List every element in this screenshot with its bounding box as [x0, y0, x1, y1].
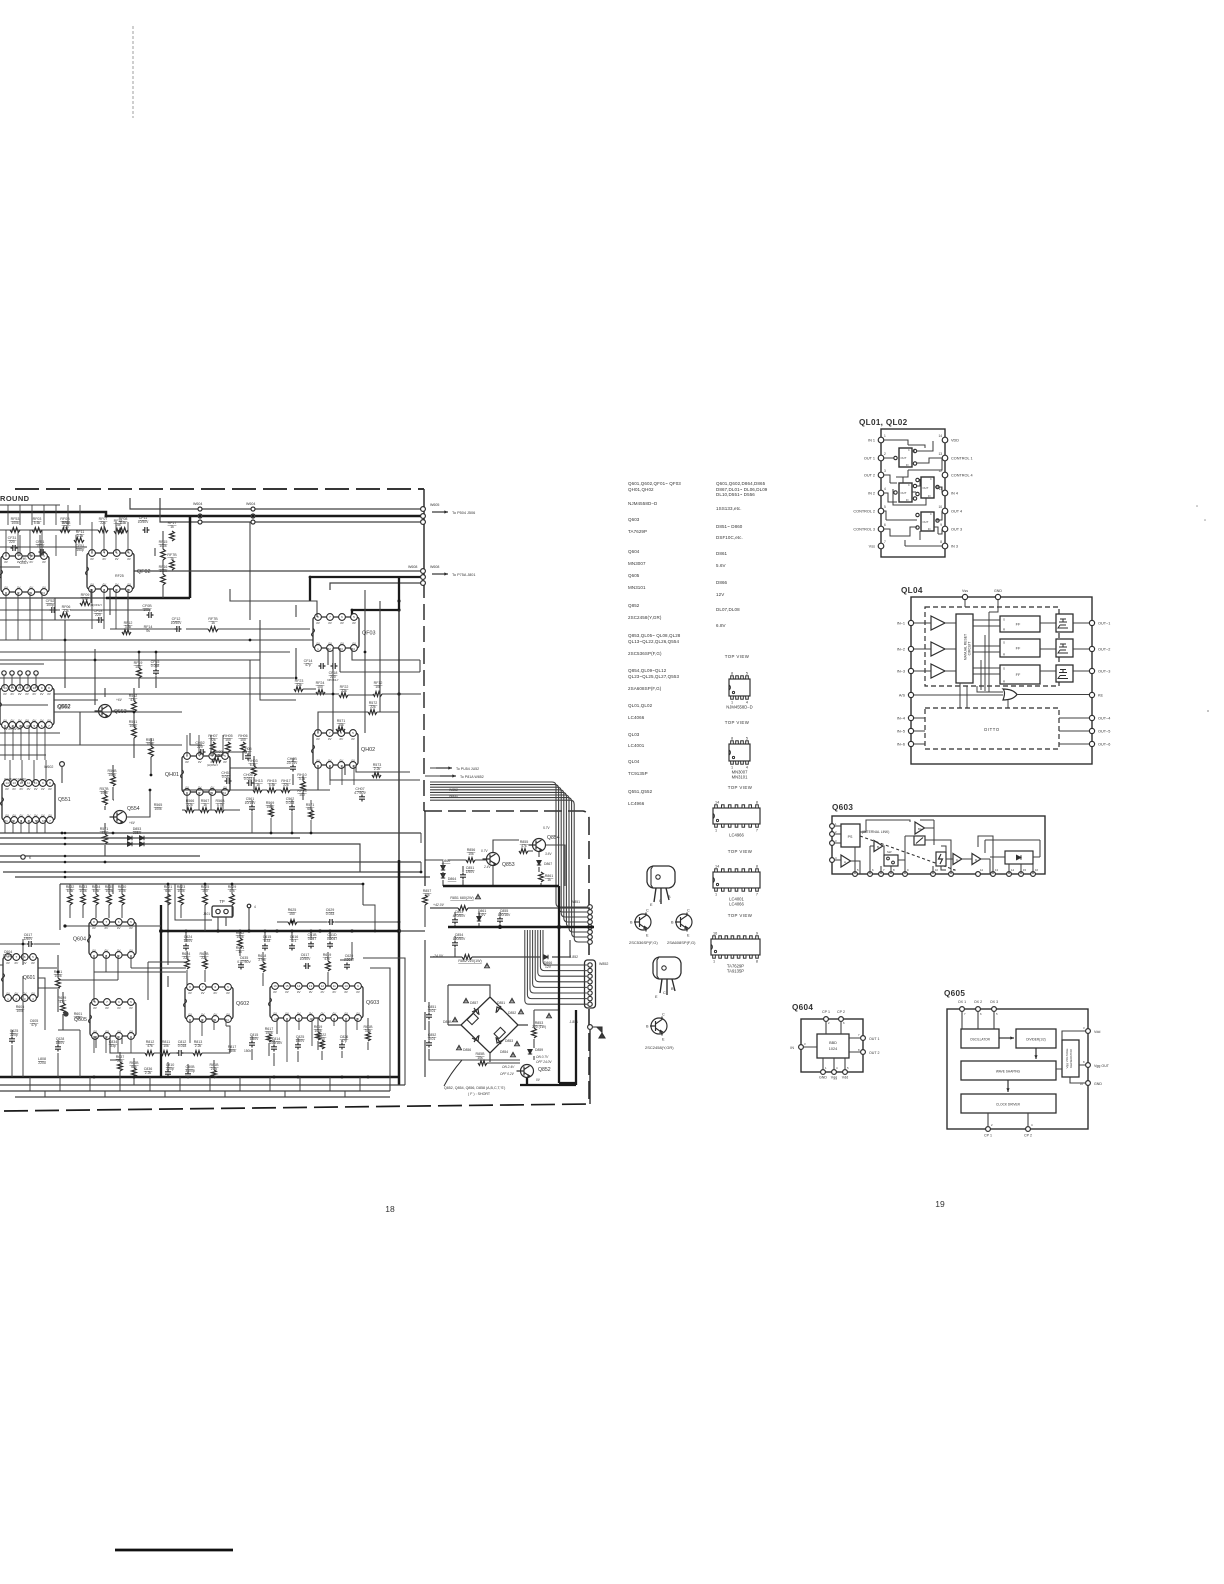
svg-text:OFF 24.0V: OFF 24.0V — [536, 1060, 552, 1064]
svg-text:220: 220 — [197, 745, 203, 749]
svg-text:S: S — [1003, 667, 1005, 671]
svg-text:OUT−5: OUT−5 — [1098, 730, 1110, 734]
wire — [58, 1030, 80, 1077]
Q603 wire — [985, 840, 1040, 874]
resistor — [230, 894, 235, 905]
junction — [332, 693, 335, 696]
switch cell 1 — [899, 448, 912, 467]
svg-text:270k: 270k — [258, 958, 266, 962]
warning triangle — [457, 1045, 462, 1049]
resistor — [132, 701, 137, 712]
svg-text:13: 13 — [11, 686, 15, 690]
svg-text:OUT 3: OUT 3 — [951, 528, 962, 532]
warning triangle — [453, 1017, 458, 1021]
QL01 pin IN 3 — [942, 543, 948, 549]
IC Q603 — [269, 986, 364, 1018]
resistor — [103, 834, 108, 844]
connector J-851 pin — [588, 930, 593, 935]
junction — [199, 515, 202, 518]
wire — [186, 931, 330, 956]
wire — [487, 1010, 559, 1063]
resistor — [118, 1062, 123, 1071]
QL01 wire — [934, 511, 942, 534]
warning triangle — [510, 998, 515, 1002]
QL01 pin Vss — [878, 543, 884, 549]
Q603 amp C — [953, 854, 962, 865]
bridge diode D853 — [496, 1037, 503, 1044]
junction — [498, 925, 502, 929]
wire — [95, 560, 421, 571]
svg-text:2.2k: 2.2k — [145, 1071, 152, 1075]
svg-text:12: 12 — [321, 984, 325, 988]
junction — [155, 651, 158, 654]
wire — [425, 768, 440, 776]
capacitor — [460, 873, 466, 880]
svg-text:D859: D859 — [535, 1048, 543, 1052]
svg-text:150p: 150p — [76, 548, 84, 552]
svg-text:ON 2.4V: ON 2.4V — [502, 1065, 515, 1069]
wire — [160, 498, 421, 522]
junction — [291, 921, 294, 924]
Q603 left pin 3 — [830, 841, 835, 846]
bundle fan wire — [430, 782, 587, 907]
Q604 BBD box — [817, 1034, 849, 1058]
svg-text:TP: TP — [219, 899, 225, 904]
svg-text:22k: 22k — [63, 525, 69, 529]
bottom thin bus — [0, 1085, 405, 1097]
svg-text:NJM4558D−D: NJM4558D−D — [726, 705, 752, 710]
package LC4001 top view — [713, 869, 760, 891]
junction — [94, 659, 97, 662]
connector pin — [251, 520, 255, 524]
connector J-852 pin — [588, 996, 592, 1000]
QH01 pin stub — [210, 792, 212, 810]
svg-text:10: 10 — [344, 984, 348, 988]
wire — [54, 700, 182, 745]
svg-text:Q551: Q551 — [58, 797, 71, 803]
Q603 wire — [898, 820, 951, 874]
wire — [425, 905, 500, 927]
junction — [374, 930, 377, 933]
QL01 pin IN 2 — [878, 490, 884, 496]
wire — [30, 548, 155, 632]
svg-text:13: 13 — [938, 452, 942, 456]
Q604 pin CP1 — [824, 1017, 829, 1022]
wire — [120, 1052, 214, 1085]
QH02 pin stub — [353, 765, 355, 785]
speck — [1204, 519, 1206, 521]
junction — [61, 832, 64, 835]
Q603 internal link dashed line — [860, 836, 955, 870]
junction — [557, 925, 561, 929]
QH01 pin stub — [186, 792, 188, 810]
QL04 wire — [914, 622, 956, 624]
resistor — [309, 810, 314, 819]
svg-text:16: 16 — [713, 931, 717, 935]
QH02 pin stub — [341, 765, 343, 785]
svg-text:+6V: +6V — [129, 821, 136, 825]
svg-text:Q852: Q852 — [628, 603, 640, 608]
svg-text:QH01: QH01 — [165, 772, 179, 778]
wire — [429, 1002, 520, 1060]
wire stub — [31, 505, 33, 525]
svg-text:DITTO: DITTO — [984, 727, 1000, 732]
diode — [128, 836, 133, 840]
junction — [309, 576, 312, 579]
QL04 wire — [1040, 670, 1089, 672]
capacitor — [308, 942, 314, 949]
wire — [592, 1026, 596, 1028]
junction — [64, 871, 67, 874]
junction — [291, 930, 294, 933]
QL01 pin OUT 2 — [878, 472, 884, 478]
svg-text:GND: GND — [1094, 1082, 1102, 1086]
svg-text:D866: D866 — [716, 580, 728, 585]
junction — [275, 929, 278, 932]
test point TP — [212, 906, 233, 917]
wire — [269, 1018, 368, 1056]
svg-text:QL04: QL04 — [628, 759, 640, 764]
svg-text:C: C — [659, 899, 662, 903]
svg-text:1: 1 — [884, 434, 886, 438]
ps left border wire — [424, 811, 426, 886]
long bus wire — [0, 844, 360, 872]
wire — [430, 940, 570, 957]
junction — [362, 883, 365, 886]
Q605 oscillator box — [961, 1029, 999, 1048]
thick vertical bus — [398, 860, 401, 1085]
wire stub — [79, 505, 81, 525]
QL04 pin IN−1 — [908, 620, 913, 625]
QF02 pin stub — [103, 589, 105, 629]
junction — [291, 832, 294, 835]
QL04 pin OUT−4 — [1089, 715, 1094, 720]
svg-text:D851~ D860: D851~ D860 — [716, 524, 743, 529]
switch cell 2 — [899, 483, 912, 502]
svg-text:LC4066: LC4066 — [628, 715, 645, 720]
svg-text:14: 14 — [5, 781, 9, 785]
bundle fan wire — [540, 930, 587, 971]
capacitor — [327, 942, 333, 949]
bundle fan wire — [430, 787, 587, 917]
svg-text:47k: 47k — [75, 1016, 81, 1020]
resistor — [61, 1003, 66, 1013]
svg-text:OFF 0.2V: OFF 0.2V — [500, 1072, 515, 1076]
capacitor — [339, 1043, 345, 1050]
svg-text:1/50V: 1/50V — [56, 1041, 66, 1045]
QL01 wire — [893, 458, 942, 505]
svg-text:OUT 1: OUT 1 — [869, 1037, 880, 1041]
svg-text:ONLY: ONLY — [20, 561, 30, 565]
junction — [397, 692, 400, 695]
wire — [60, 883, 363, 885]
svg-text:2SA608SP(F,G): 2SA608SP(F,G) — [667, 940, 696, 945]
junction — [341, 1076, 344, 1079]
svg-text:+6V: +6V — [116, 698, 123, 702]
connector pin — [2, 671, 6, 675]
wire — [363, 905, 375, 931]
junction — [231, 883, 234, 886]
capacitor — [271, 1045, 277, 1052]
Q603 left pin 4 — [830, 858, 835, 863]
svg-text:285A: 285A — [133, 831, 142, 835]
QL04 pin IN−6 — [908, 741, 913, 746]
QL04 pin GND — [995, 594, 1000, 599]
resistor — [267, 788, 276, 793]
svg-text:OX 1: OX 1 — [958, 1000, 966, 1004]
svg-text:220: 220 — [9, 540, 15, 544]
svg-text:CP 2: CP 2 — [1024, 1134, 1032, 1138]
junction — [63, 924, 66, 927]
svg-text:R851 680(2W): R851 680(2W) — [450, 896, 473, 900]
svg-text:Q605: Q605 — [944, 989, 965, 998]
svg-text:Q602: Q602 — [236, 1001, 249, 1007]
junction — [133, 711, 136, 714]
QF02 pin stub — [103, 522, 105, 553]
QL04 inner dashed box — [925, 607, 1059, 686]
Q603 pin stubs — [287, 1018, 357, 1062]
diode — [477, 917, 481, 922]
Q603 wire — [870, 846, 891, 874]
transistor symbol 2SC536SP — [634, 913, 651, 932]
bundle fan wire — [430, 800, 587, 942]
bundle fan wire — [527, 930, 587, 999]
warning triangle — [476, 894, 481, 898]
junction — [310, 832, 313, 835]
svg-text:1k: 1k — [170, 525, 174, 529]
svg-text:IN 4: IN 4 — [951, 492, 958, 496]
svg-text:0.0047: 0.0047 — [327, 937, 337, 941]
resistor — [294, 687, 303, 692]
Q552 pin stub — [4, 725, 6, 760]
svg-text:CONTROL 3: CONTROL 3 — [853, 528, 875, 532]
svg-text:18: 18 — [385, 1204, 395, 1214]
Q605 pin OX 3 — [992, 1007, 997, 1012]
junction — [367, 1076, 370, 1079]
junction — [150, 774, 153, 777]
svg-text:TA9135P: TA9135P — [727, 969, 744, 974]
resistor — [253, 788, 262, 793]
diode — [140, 836, 145, 840]
Q603 limiter box — [914, 836, 925, 845]
svg-text:W602: W602 — [44, 765, 53, 769]
svg-text:IN: IN — [906, 464, 909, 467]
svg-text:0.7V: 0.7V — [481, 849, 488, 853]
Q604 pin OUT1 — [861, 1036, 866, 1041]
QL01 pin IN 1 — [878, 437, 884, 443]
thick bus — [106, 516, 190, 598]
capacitor — [143, 527, 150, 533]
junction — [64, 855, 67, 858]
connector pin — [421, 514, 426, 519]
svg-text:IN−2: IN−2 — [897, 648, 905, 652]
junction — [249, 639, 252, 642]
svg-text:100: 100 — [299, 793, 305, 797]
capacitor — [249, 805, 255, 812]
IC QH02 — [312, 733, 359, 765]
connector J-852 pin — [588, 963, 592, 967]
Q603 bottom pin 6 — [868, 872, 873, 877]
capacitor — [290, 765, 296, 772]
wire — [180, 884, 182, 918]
IC pin stub — [29, 592, 31, 640]
svg-text:To P504 J506: To P504 J506 — [452, 511, 475, 515]
svg-text:Vdd: Vdd — [842, 1076, 848, 1080]
wire — [0, 505, 87, 567]
svg-text:3.6V: 3.6V — [545, 852, 552, 856]
resistor — [238, 938, 243, 948]
bus tick — [104, 1091, 106, 1097]
Q603 bottom pin 13 — [991, 872, 996, 877]
transistor Q852 — [517, 1065, 534, 1078]
bus tick — [89, 1077, 91, 1091]
connector J851 pin — [588, 1025, 593, 1030]
QL04 wire — [914, 648, 956, 650]
junction — [167, 930, 170, 933]
svg-text:47k: 47k — [324, 957, 330, 961]
capacitor — [295, 1043, 301, 1050]
junction — [138, 651, 141, 654]
wire stub — [19, 675, 21, 688]
diode — [140, 842, 145, 846]
Q605 pin OX 2 — [976, 1007, 981, 1012]
svg-text:100k: 100k — [11, 521, 19, 525]
wire — [23, 926, 161, 1000]
wire stub — [43, 505, 45, 525]
wire — [96, 1036, 122, 1060]
junction — [159, 929, 163, 933]
switch cell 3 — [921, 477, 934, 498]
resistor — [366, 1032, 371, 1041]
Q605 divider box — [1016, 1029, 1056, 1048]
capacitor — [328, 919, 335, 925]
transistor Q854 — [529, 839, 546, 852]
svg-text:8: 8 — [756, 864, 758, 868]
wire — [61, 766, 63, 783]
QL01 pin CONTROL 3 — [878, 526, 884, 532]
QL04 input amp 2 — [931, 642, 945, 656]
Q603 wire — [933, 836, 993, 874]
svg-text:RF25: RF25 — [115, 574, 124, 578]
connector J-852 pin — [588, 985, 592, 989]
capacitor — [238, 963, 244, 970]
svg-text:4: 4 — [254, 905, 256, 909]
svg-text:Q601: Q601 — [23, 975, 35, 981]
resistor — [122, 630, 131, 635]
QL04 flip-flop 1 — [1000, 616, 1040, 632]
resistor — [336, 727, 345, 732]
bus tick — [29, 1077, 31, 1091]
svg-text:15: 15 — [285, 984, 289, 988]
capacitor — [55, 1045, 61, 1052]
connector J-851 pin — [588, 915, 593, 920]
schematic right border — [423, 489, 425, 560]
svg-text:IN: IN — [928, 528, 931, 531]
QL04 vertical wires — [977, 612, 1003, 692]
wire stub — [35, 675, 37, 688]
svg-text:100: 100 — [225, 738, 231, 742]
connector J-852 pin — [588, 980, 592, 984]
bus tick — [119, 1077, 121, 1091]
wire — [187, 951, 328, 987]
IC pin stub — [17, 592, 19, 640]
svg-text:To P81A W852: To P81A W852 — [460, 775, 484, 779]
arrow to P504 — [432, 511, 448, 513]
svg-text:2: 2 — [884, 452, 886, 456]
connector pin — [21, 855, 25, 859]
wire — [0, 620, 310, 629]
svg-text:150k: 150k — [244, 1049, 251, 1053]
wire — [248, 908, 250, 931]
IC QH01 — [181, 756, 231, 792]
QL04 wire — [914, 670, 956, 672]
wire stub — [75, 535, 77, 556]
wire stub — [3, 675, 5, 688]
scan artifact line — [132, 26, 134, 118]
wire — [130, 498, 421, 509]
Q603 amp D — [972, 854, 981, 865]
thick bus W605 — [0, 512, 421, 516]
svg-text:ON 0.7V: ON 0.7V — [536, 1055, 549, 1059]
long bus wire — [0, 832, 421, 834]
svg-text:OSCILLATOR: OSCILLATOR — [970, 1038, 991, 1042]
long bus wire — [3, 872, 430, 877]
wire — [328, 648, 420, 672]
QL04 pin IN−2 — [908, 646, 913, 651]
Q551 pin stub — [4, 820, 6, 833]
svg-text:IN 1: IN 1 — [868, 439, 875, 443]
junction — [104, 861, 107, 864]
wire — [139, 652, 156, 688]
Q552 pin stub — [44, 725, 46, 760]
svg-text:J401: J401 — [203, 912, 210, 916]
diode — [441, 874, 445, 879]
Q552 pin stub — [12, 725, 14, 760]
Q603 diode box — [1005, 851, 1033, 864]
svg-text:C: C — [662, 1013, 665, 1017]
connector J-851 pin — [588, 935, 593, 940]
connector pin — [10, 671, 14, 675]
resistor — [326, 961, 331, 971]
connector pin — [26, 671, 30, 675]
svg-text:100k: 100k — [129, 724, 137, 728]
QL01 wire — [884, 475, 897, 502]
QL04 wire — [914, 730, 1089, 732]
QH02 pin stub — [329, 765, 331, 785]
svg-text:10/50V: 10/50V — [300, 957, 311, 961]
long bus wire — [0, 856, 421, 862]
svg-text:(H)ONLY: (H)ONLY — [207, 763, 218, 767]
Q551 pin stub — [12, 820, 14, 833]
junction — [204, 883, 207, 886]
svg-text:Q854,QL09~QL12: Q854,QL09~QL12 — [628, 668, 667, 673]
resistor — [170, 531, 175, 541]
junction — [64, 832, 67, 835]
Q605 pin OX 1 — [960, 1007, 965, 1012]
wire — [252, 800, 292, 833]
QL04 pin A/S — [908, 692, 913, 697]
QL04 pin IN−4 — [908, 715, 913, 720]
block Q605 outline — [947, 1009, 1088, 1129]
connector J-851 pin — [588, 925, 593, 930]
svg-text:0s: 0s — [146, 629, 150, 633]
svg-text:D864: D864 — [448, 877, 457, 881]
resistor — [32, 528, 42, 533]
wire stub — [7, 505, 9, 525]
thick wire to QF03 — [310, 577, 399, 617]
wire — [182, 809, 240, 811]
svg-text:IN−1: IN−1 — [897, 622, 905, 626]
